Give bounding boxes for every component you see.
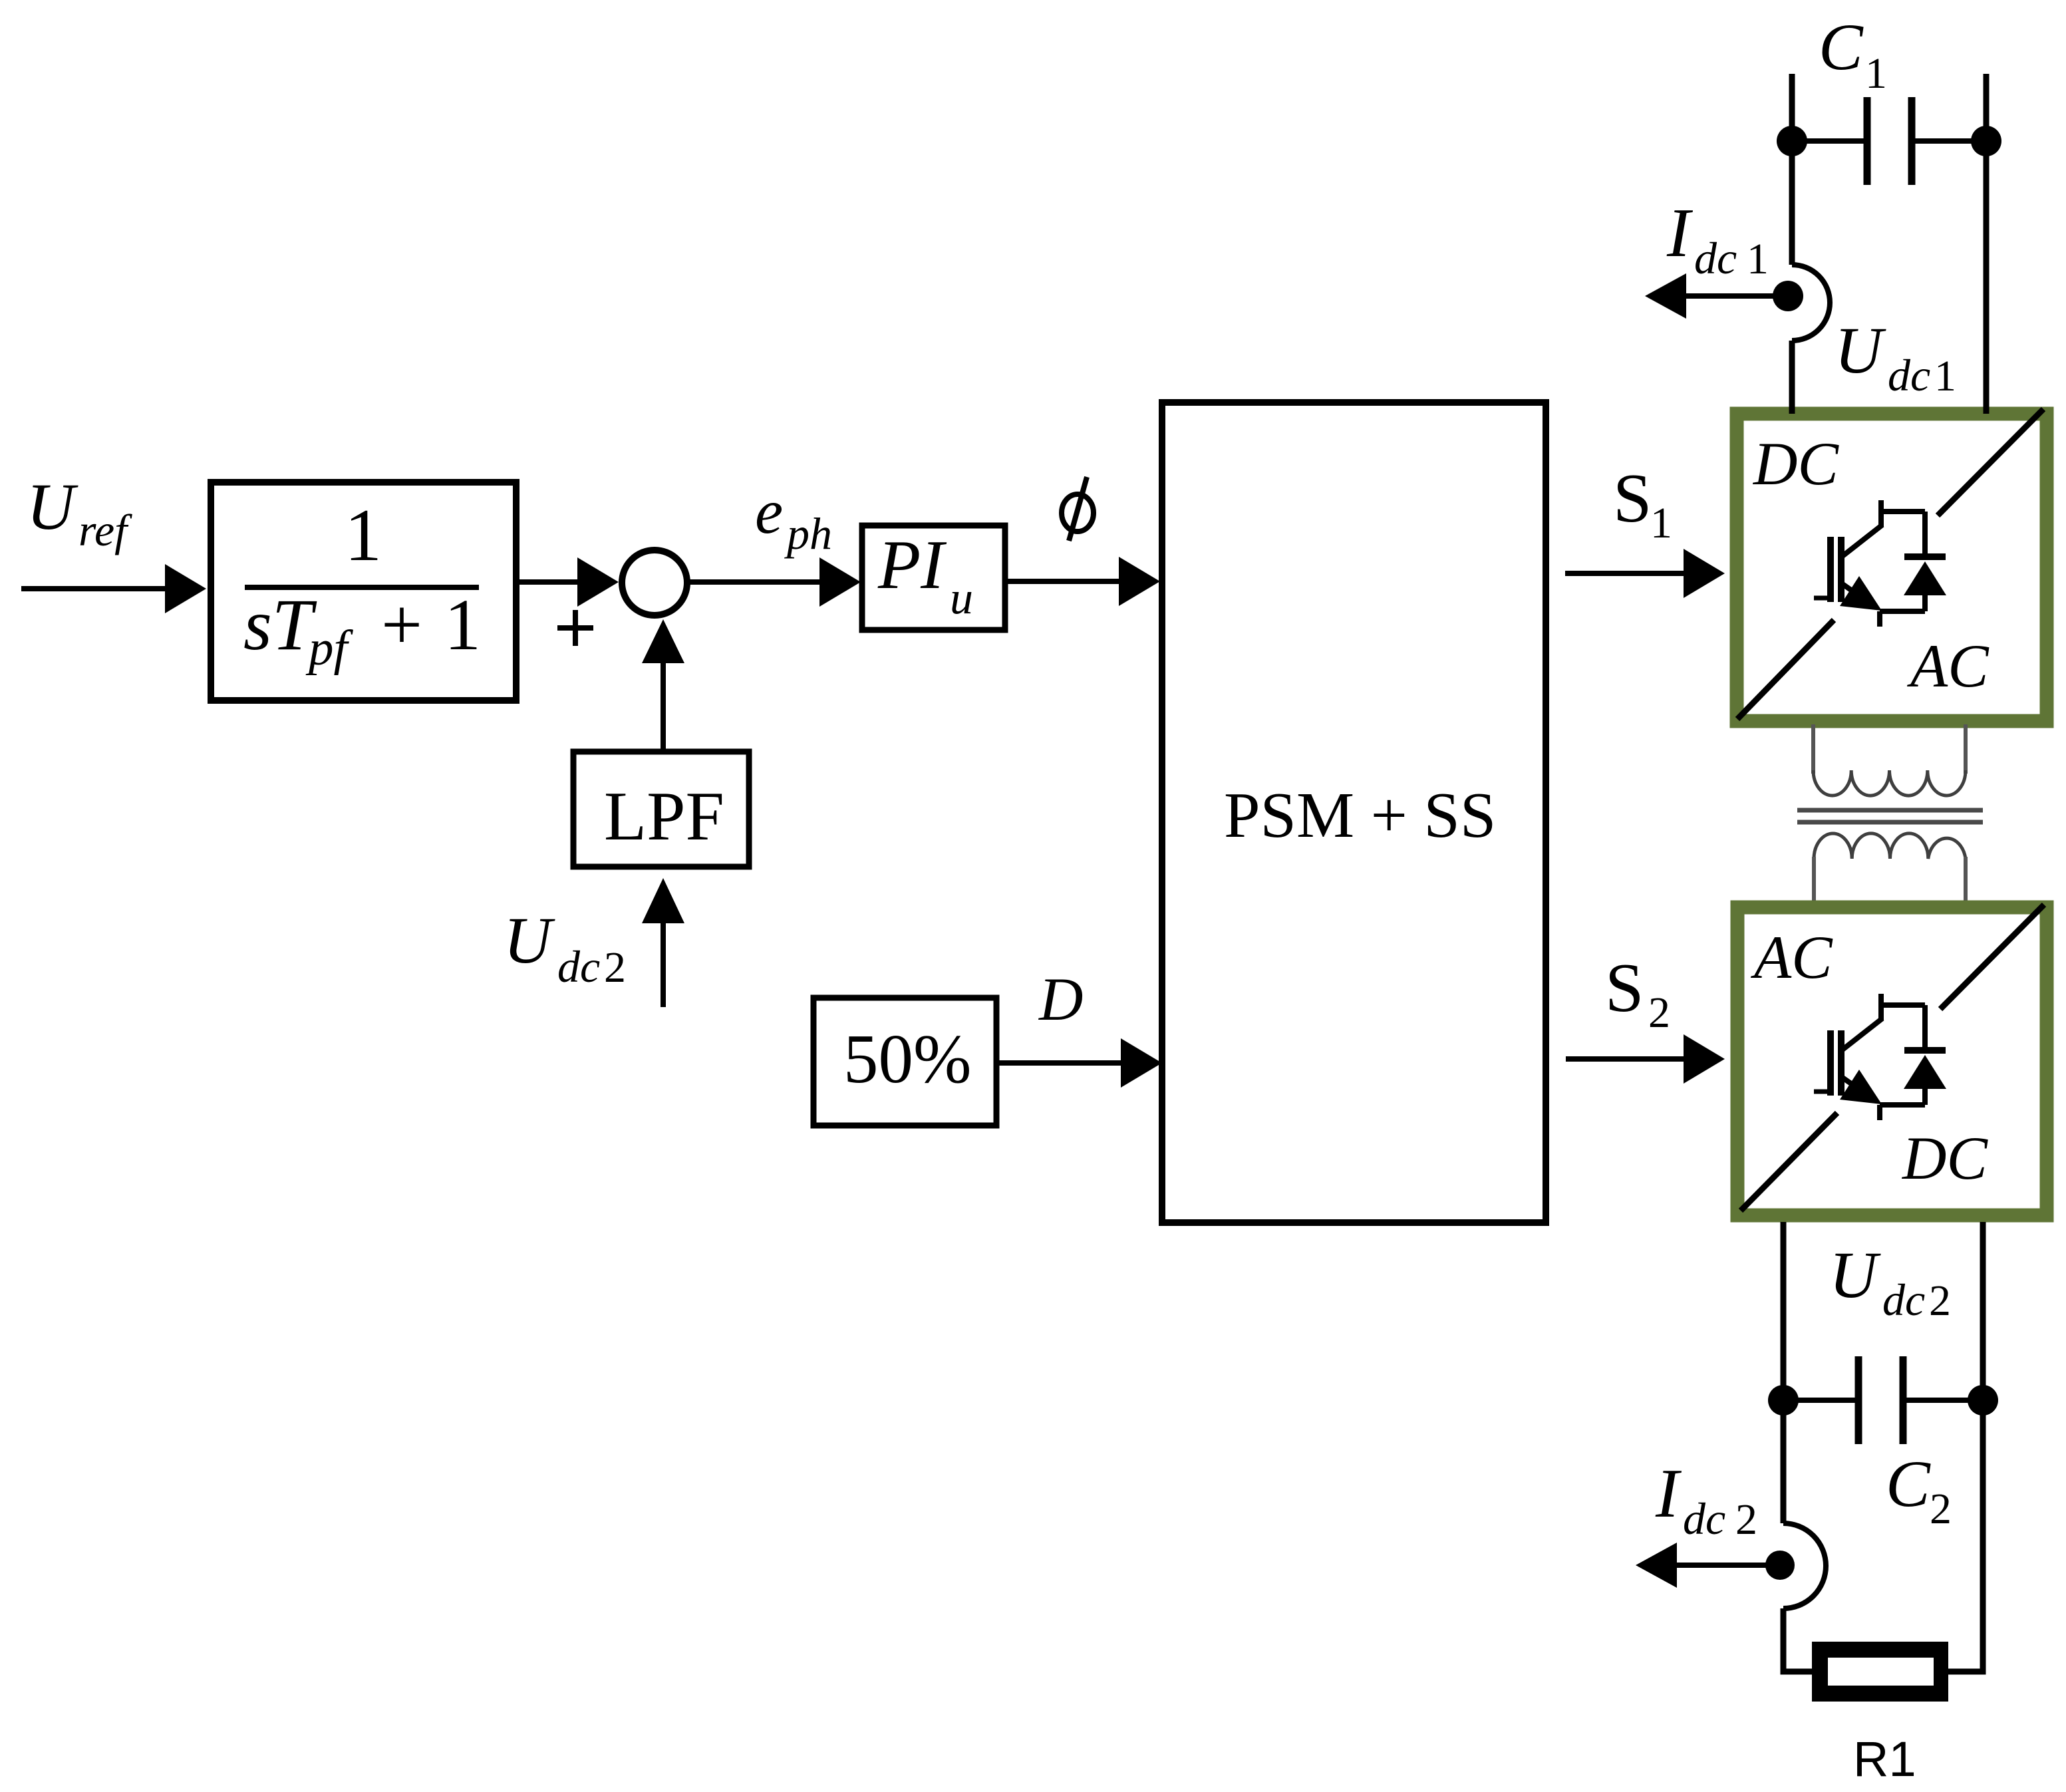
svg-text:I: I <box>1666 194 1694 271</box>
wire PIu to PSM+SS block <box>1005 557 1160 606</box>
wire DC bus2 right upper <box>1980 1222 1986 1400</box>
node label S1 <box>1613 459 1672 547</box>
svg-text:pf: pf <box>305 621 354 676</box>
svg-text:2: 2 <box>1735 1495 1757 1544</box>
wire DC bus1 left upper <box>1789 74 1795 265</box>
svg-text:dc: dc <box>1882 1274 1925 1325</box>
block prefilter 1/(sTpf+1) <box>211 482 516 700</box>
svg-text:+: + <box>381 584 422 665</box>
diagonal lower-left (U2) <box>1741 1113 1837 1211</box>
svg-text:1: 1 <box>1865 49 1887 98</box>
label Idc2 <box>1655 1454 1757 1544</box>
converter U1 box DC/AC <box>1737 414 2047 721</box>
wire summing junction to PIu block <box>689 557 861 607</box>
svg-text:S: S <box>1613 459 1652 537</box>
svg-text:1: 1 <box>1934 352 1956 400</box>
label Udc2 (bus2) <box>1829 1238 1951 1325</box>
svg-text:U: U <box>27 470 78 543</box>
svg-text:dc: dc <box>557 941 600 992</box>
wire DC bus1 left lower <box>1789 341 1795 414</box>
current loop Idc2 <box>1783 1523 1826 1608</box>
svg-text:R1: R1 <box>1853 1731 1916 1787</box>
converter U2 box AC/DC <box>1737 907 2047 1215</box>
transformer T1 secondary lead right <box>1964 857 1968 901</box>
diagonal upper-right (U2) <box>1940 905 2044 1009</box>
svg-text:e: e <box>755 476 783 547</box>
capacitor C1 <box>1792 97 1986 185</box>
svg-text:u: u <box>950 573 973 624</box>
svg-text:AC: AC <box>1750 923 1833 991</box>
svg-text:PI: PI <box>877 525 947 603</box>
wire Udc2 input to LPF <box>642 878 684 1007</box>
svg-text:PSM + SS: PSM + SS <box>1224 780 1496 851</box>
transistor Q1 IGBT with antiparallel diode <box>1814 500 1946 627</box>
svg-text:U: U <box>1835 313 1886 387</box>
svg-text:2: 2 <box>1648 988 1670 1037</box>
node label eph <box>755 476 832 559</box>
current loop Idc1 <box>1792 265 1830 341</box>
svg-text:I: I <box>1655 1454 1682 1532</box>
svg-text:DC: DC <box>1901 1124 1988 1192</box>
node junction dot bus2 left <box>1768 1385 1799 1416</box>
wire LPF to summing junction <box>642 619 684 752</box>
svg-text:1: 1 <box>1650 499 1672 547</box>
wire bus2 right lower <box>1948 1400 1983 1672</box>
svg-text:2: 2 <box>1930 1485 1952 1533</box>
node label phi <box>1062 477 1094 541</box>
svg-text:AC: AC <box>1906 632 1990 700</box>
svg-text:1: 1 <box>345 494 382 577</box>
node measuring dot Idc1 <box>1773 281 1803 311</box>
node measuring dot Idc2 <box>1765 1551 1795 1580</box>
block PSM+SS <box>1162 402 1546 1223</box>
svg-text:S: S <box>1605 949 1644 1026</box>
svg-text:sT: sT <box>243 584 317 665</box>
svg-text:LPF: LPF <box>604 777 724 855</box>
svg-text:dc: dc <box>1694 233 1737 283</box>
transistor Q2 IGBT with antiparallel diode <box>1814 994 1946 1120</box>
label C2 <box>1886 1447 1952 1533</box>
label Udc1 <box>1835 313 1956 400</box>
node label S2 <box>1605 949 1670 1037</box>
node junction dot bus2 right <box>1968 1385 1998 1416</box>
node label Udc2 (LPF input) <box>504 903 626 992</box>
wire DC bus2 left upper <box>1781 1222 1787 1400</box>
svg-text:U: U <box>504 903 555 977</box>
wire DC bus1 right <box>1984 74 1990 414</box>
plus sign at summing junction input <box>557 610 593 646</box>
label Idc1 <box>1666 194 1769 283</box>
svg-text:D: D <box>1038 965 1083 1033</box>
transformer T1 primary winding <box>1813 770 1966 796</box>
svg-text:C: C <box>1819 10 1864 84</box>
wire prefilter to summing junction <box>516 557 619 607</box>
node label Uref <box>27 470 132 555</box>
label C1 <box>1819 10 1887 98</box>
svg-text:dc: dc <box>1888 350 1930 400</box>
svg-text:1: 1 <box>444 584 481 665</box>
resistor R1 <box>1812 1642 1948 1702</box>
wire bus2 left lower <box>1783 1608 1812 1672</box>
arrow Idc1 <box>1645 273 1788 319</box>
capacitor C2 <box>1783 1356 1983 1444</box>
transformer T1 core <box>1797 810 1983 822</box>
svg-text:2: 2 <box>604 943 626 992</box>
transformer T1 primary lead right <box>1964 724 1968 774</box>
svg-text:ref: ref <box>78 505 132 555</box>
wire 50% to PSM+SS <box>996 1038 1162 1088</box>
svg-text:2: 2 <box>1929 1276 1951 1325</box>
wire S2 PSM+SS to converter U2 <box>1566 1034 1725 1084</box>
wire bus2 left middle <box>1781 1400 1787 1523</box>
node junction dot bus1 right <box>1971 126 2001 156</box>
diagonal upper-right (U1) <box>1938 409 2043 516</box>
diagonal lower-left (U1) <box>1737 620 1834 719</box>
arrow Idc2 <box>1636 1543 1780 1588</box>
transformer T1 primary lead left <box>1811 724 1815 774</box>
svg-text:U: U <box>1829 1238 1881 1312</box>
svg-text:dc: dc <box>1683 1493 1725 1544</box>
svg-text:C: C <box>1886 1447 1931 1521</box>
node junction dot bus1 left <box>1777 126 1807 156</box>
wire input to prefilter block <box>21 564 206 613</box>
block PIu <box>862 525 1005 630</box>
wire S1 PSM+SS to converter U1 <box>1565 549 1725 598</box>
svg-text:DC: DC <box>1752 430 1839 498</box>
svg-text:ph: ph <box>784 508 832 559</box>
block 50% <box>813 998 996 1125</box>
summing junction <box>622 550 687 615</box>
transformer T1 secondary winding <box>1814 833 1966 859</box>
block LPF <box>573 752 749 867</box>
svg-text:1: 1 <box>1747 235 1769 283</box>
transformer T1 secondary lead left <box>1812 857 1816 901</box>
svg-text:50%: 50% <box>843 1020 971 1098</box>
